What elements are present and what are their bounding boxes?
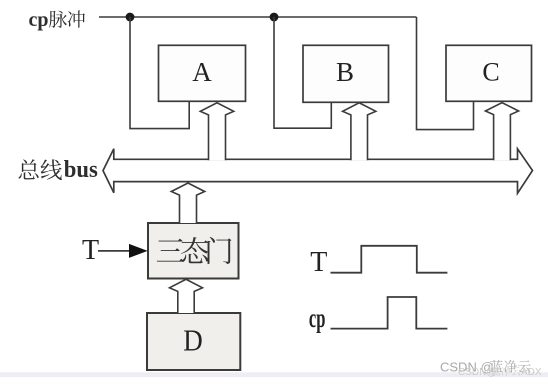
arrow: bus to C (485, 103, 518, 161)
svg-text:cp: cp (309, 303, 325, 333)
svg-text:C: C (482, 57, 499, 86)
label 总线bus (19, 157, 98, 183)
wire: T input (98, 250, 132, 252)
waveform T (331, 246, 448, 273)
svg-text:CSDN@: CSDN@ (458, 367, 497, 378)
svg-text:D: D (183, 323, 203, 358)
wire: cp branch to C (417, 17, 474, 130)
waveform cp (331, 297, 448, 329)
node: junction dot 1 (126, 13, 135, 22)
node: junction dot 2 (270, 13, 279, 22)
svg-text:T: T (310, 247, 327, 278)
bus: 总线 double-headed arrow (103, 149, 533, 194)
wire: cp branch to B (274, 17, 331, 128)
wire: cp top rail (99, 16, 417, 18)
register A (159, 45, 246, 101)
register B (303, 45, 389, 102)
label cp脉冲 (29, 9, 85, 31)
arrow: tri-state gate to bus (171, 183, 204, 223)
arrow: bus to B (343, 103, 376, 160)
register C (446, 45, 532, 101)
svg-text:T: T (82, 235, 99, 266)
watermark band (0, 372, 548, 377)
svg-text:bus: bus (64, 157, 98, 183)
svg-text:cp: cp (29, 9, 49, 31)
arrow: D to tri-state gate (170, 279, 203, 313)
wire: cp branch to A (130, 17, 189, 129)
register D (147, 313, 240, 370)
arrowhead: T input (129, 244, 148, 258)
svg-text:B: B (336, 57, 354, 87)
arrow: bus to A (200, 103, 233, 160)
svg-text:A: A (192, 57, 212, 87)
svg-text:ADX: ADX (521, 367, 542, 378)
watermark CSDN (440, 360, 542, 378)
tri-state gate 三态门 (148, 223, 239, 279)
